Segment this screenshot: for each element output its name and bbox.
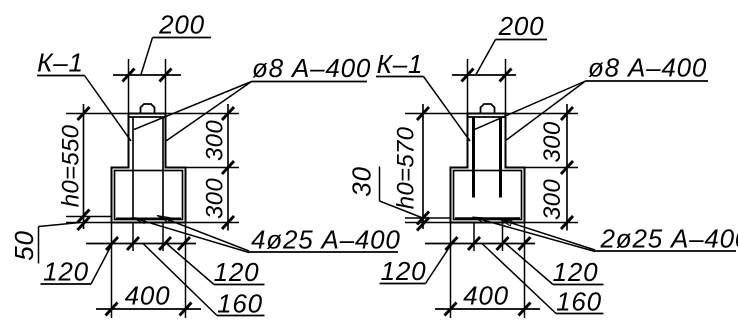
svg-text:50: 50 xyxy=(9,230,39,261)
tick 50 bottom left drawing xyxy=(78,217,90,230)
svg-text:К–1: К–1 xyxy=(37,48,84,78)
svg-text:400: 400 xyxy=(125,281,171,311)
tick right 200 b xyxy=(500,69,512,82)
top dimension 200 left: extension lines xyxy=(129,59,166,114)
tick h0 top right drawing xyxy=(417,107,429,120)
top dimension 200 right: extension lines xyxy=(468,59,506,114)
tick left 200 b xyxy=(160,69,172,82)
tick h0 bottom right drawing xyxy=(417,212,429,225)
label 4o25 A-400 left xyxy=(133,216,401,255)
left side extension lines left drawing xyxy=(66,114,129,223)
svg-text:h0=550: h0=550 xyxy=(58,124,85,207)
label 200 right xyxy=(476,11,547,75)
inner reinforcement rectangle right xyxy=(454,171,522,220)
row1 tick c left xyxy=(159,237,171,250)
svg-text:300: 300 xyxy=(202,178,229,219)
label 160 right xyxy=(482,244,604,317)
svg-text:ø8 А–400: ø8 А–400 xyxy=(588,53,707,83)
svg-text:2ø25 А–400: 2ø25 А–400 xyxy=(600,224,738,254)
h0 dimension line left drawing xyxy=(83,104,85,229)
label 50 left drawing xyxy=(9,223,80,264)
top dimension 200 left: dimension line xyxy=(113,74,181,76)
tick 30 bottom right drawing xyxy=(417,218,429,231)
tick 300 top right drawing xyxy=(561,107,573,120)
column joint line right xyxy=(468,116,506,118)
arrow tip a left 4o25 xyxy=(157,216,170,223)
label K-1 right xyxy=(376,49,470,141)
label 200 left xyxy=(141,10,211,75)
row1 tick b right xyxy=(468,237,480,250)
arrow tip b left 4o25 xyxy=(132,218,145,224)
right side extension lines left drawing xyxy=(166,114,240,223)
svg-text:120: 120 xyxy=(381,256,427,286)
right side extension lines right drawing xyxy=(506,114,579,223)
bottom dim row 400 left drawing xyxy=(96,308,201,310)
column joint line left xyxy=(129,116,166,118)
bottom extension lines left drawing xyxy=(112,223,186,319)
tick left 200 a xyxy=(123,69,135,82)
label o8 A-400 right xyxy=(475,53,709,142)
svg-text:160: 160 xyxy=(556,287,602,317)
row2 tick b right xyxy=(519,303,531,316)
label 160 left xyxy=(143,244,265,319)
row1 tick c right xyxy=(497,237,509,250)
bottom rebar left xyxy=(116,218,181,220)
tick h0 bottom left drawing xyxy=(78,210,90,223)
label K-1 left xyxy=(37,48,131,142)
right dimension line 300/300 left drawing xyxy=(227,104,229,231)
svg-text:120: 120 xyxy=(214,257,260,287)
footing outline right xyxy=(451,114,525,223)
row2 tick a right xyxy=(445,303,457,316)
row1 tick b left xyxy=(127,237,139,250)
column rebar right drawing (thick bars) xyxy=(474,118,501,198)
label 2o25 A-400 right xyxy=(474,217,738,253)
tick h0 top left drawing xyxy=(78,107,90,120)
row1 tick a left xyxy=(106,237,118,250)
column notch right xyxy=(481,104,495,114)
svg-text:ø8 А–400: ø8 А–400 xyxy=(252,53,371,83)
column rebar left drawing xyxy=(133,117,163,220)
svg-text:К–1: К–1 xyxy=(377,49,424,79)
tick 300 bottom right drawing xyxy=(561,216,573,229)
svg-text:4ø25 А–400: 4ø25 А–400 xyxy=(251,225,401,255)
svg-text:120: 120 xyxy=(43,257,89,287)
arrow tip b right 2o25 xyxy=(473,217,486,223)
svg-text:h0=570: h0=570 xyxy=(393,126,420,209)
right dimension line 300/300 right drawing xyxy=(566,104,568,231)
svg-text:200: 200 xyxy=(498,11,545,41)
bottom dim row 120/160/120 right drawing xyxy=(425,243,535,245)
label 120 right-right xyxy=(506,244,604,288)
h0 dimension line right drawing xyxy=(422,104,424,229)
tick 300 mid left drawing xyxy=(222,161,234,174)
svg-text:160: 160 xyxy=(217,289,263,319)
row2 tick b left xyxy=(180,303,192,316)
column notch left xyxy=(141,104,155,114)
row1 tick a right xyxy=(446,237,458,250)
row1 tick d right xyxy=(519,237,531,250)
label 120 left-left xyxy=(41,244,113,287)
svg-text:120: 120 xyxy=(553,257,599,287)
svg-text:300: 300 xyxy=(202,120,229,161)
svg-text:30: 30 xyxy=(347,166,377,197)
label 120 right-left xyxy=(380,244,452,286)
tick 300 bottom left drawing xyxy=(222,216,234,229)
label 120 left-right xyxy=(167,244,265,288)
svg-text:400: 400 xyxy=(463,281,509,311)
bottom dim row 120/160/120 left drawing xyxy=(86,243,196,245)
label 30 right drawing xyxy=(347,166,422,217)
bottom extension lines right drawing xyxy=(451,223,525,319)
arrow tip a right 2o25 xyxy=(499,219,512,226)
tick right 200 a xyxy=(462,69,474,82)
bottom dim row 400 right drawing xyxy=(435,308,540,310)
inner reinforcement rectangle left xyxy=(115,171,183,220)
svg-text:300: 300 xyxy=(539,121,566,162)
svg-text:200: 200 xyxy=(158,10,205,40)
bottom rebar right xyxy=(455,217,520,219)
top dimension 200 right: dimension line xyxy=(452,74,516,76)
tick 300 mid right drawing xyxy=(561,161,573,174)
footing outline left xyxy=(112,114,186,223)
row2 tick a left xyxy=(106,303,118,316)
left side extension lines right drawing xyxy=(405,114,468,223)
svg-text:300: 300 xyxy=(539,179,566,220)
label o8 A-400 left xyxy=(134,53,371,141)
tick 300 top left drawing xyxy=(222,107,234,120)
row1 tick d left xyxy=(178,237,190,250)
